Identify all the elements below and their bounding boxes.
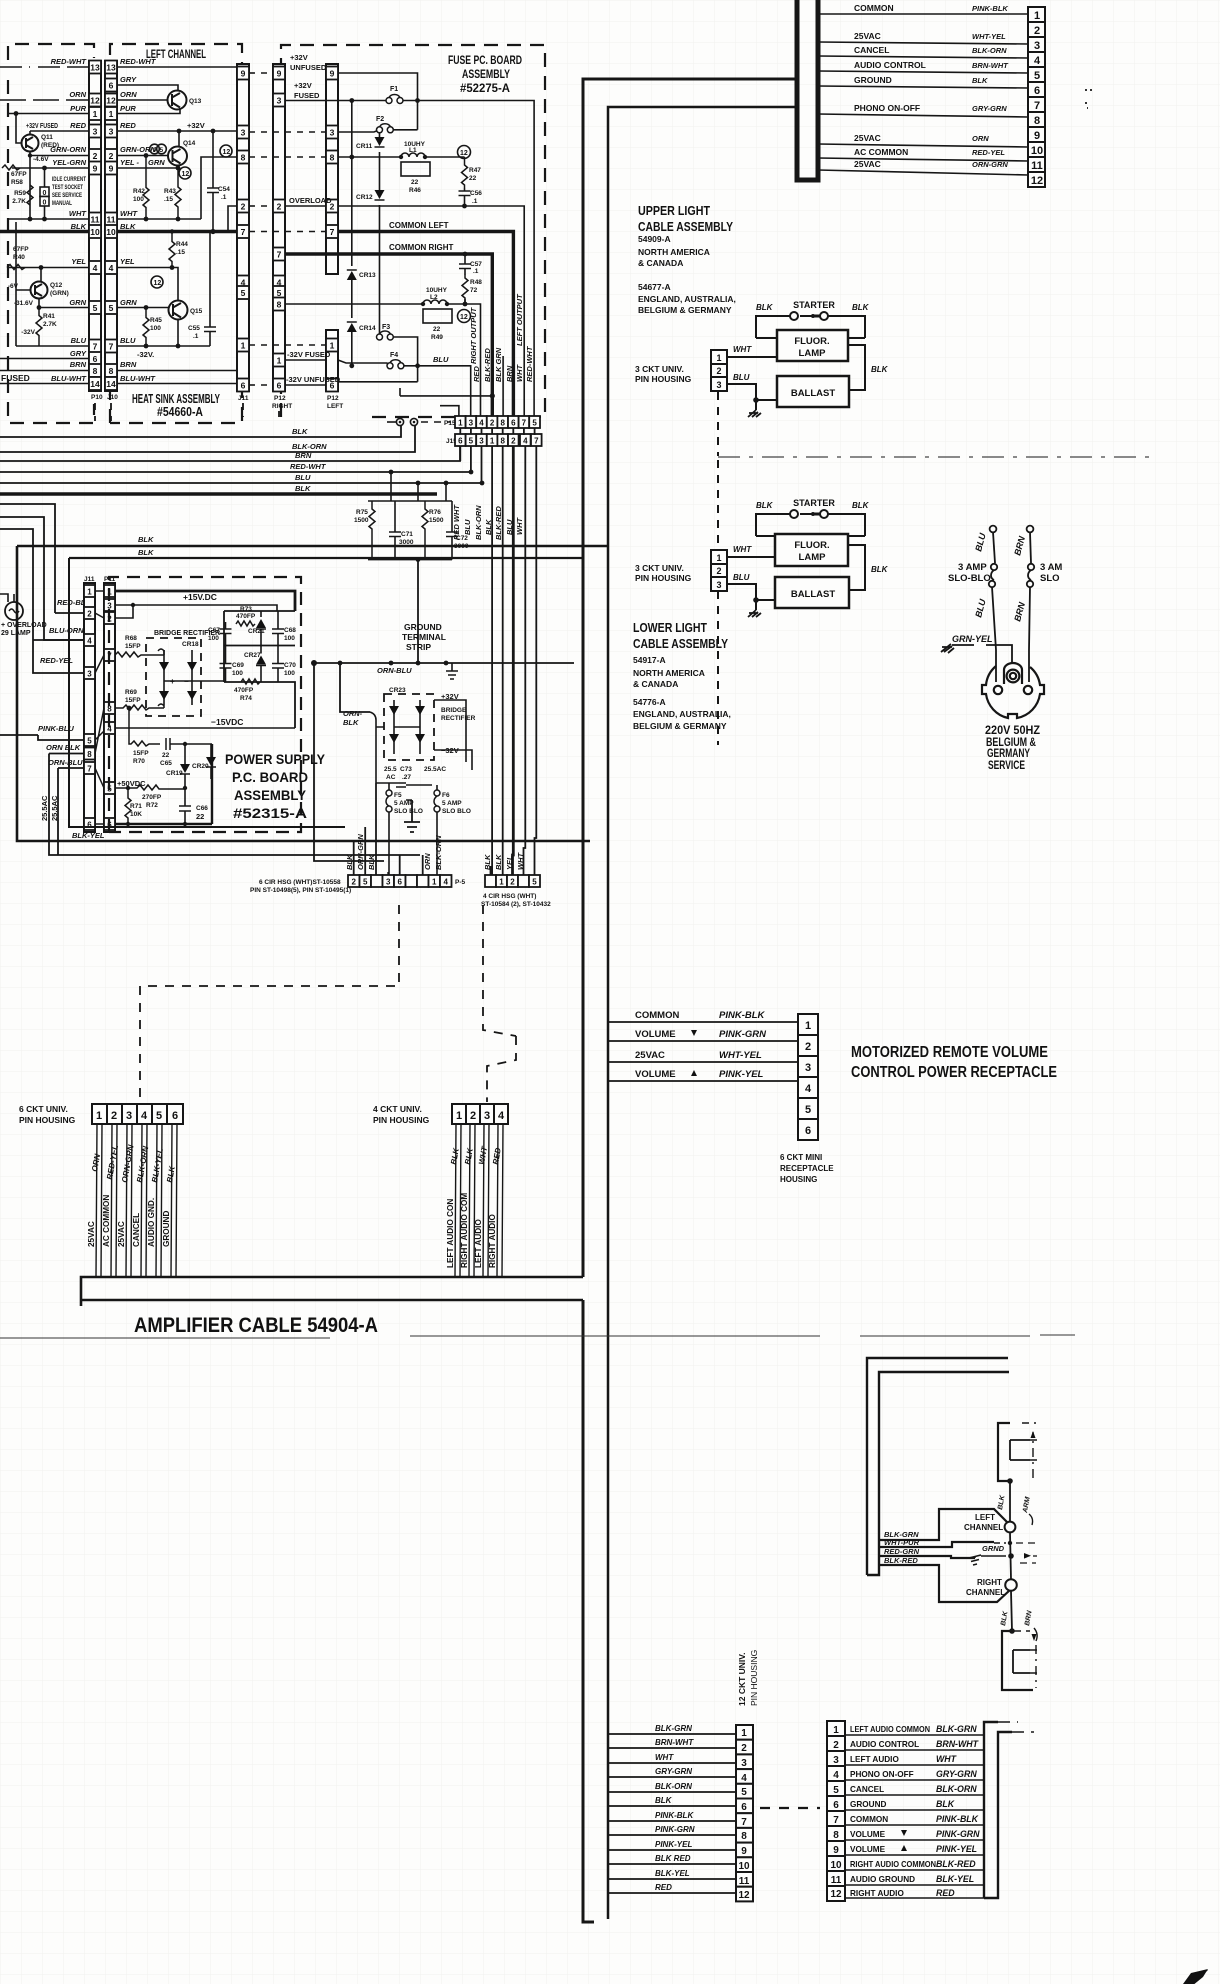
svg-text:5: 5	[532, 878, 537, 887]
wire BLK-GRN	[879, 1509, 1007, 1540]
svg-text:SEE SERVICE: SEE SERVICE	[52, 192, 82, 199]
svg-text:UNFUSED: UNFUSED	[290, 63, 327, 72]
svg-text:5: 5	[805, 1104, 811, 1116]
svg-text:#52275-A: #52275-A	[460, 81, 510, 95]
svg-text:8: 8	[93, 366, 98, 376]
svg-text:CANCEL: CANCEL	[132, 1213, 141, 1247]
svg-text:YEL -: YEL -	[120, 158, 140, 167]
dashed enclosure power supply	[109, 577, 301, 832]
wire WHT-PUR	[879, 1542, 994, 1547]
resistor R74 470FP	[241, 679, 260, 684]
svg-text:PHONO ON-OFF: PHONO ON-OFF	[854, 103, 920, 113]
test point 9/5 circles	[150, 144, 167, 154]
svg-text:R71: R71	[130, 803, 142, 810]
svg-text:AUDIO GROUND: AUDIO GROUND	[850, 1875, 915, 1884]
svg-text:CABLE ASSEMBLY: CABLE ASSEMBLY	[638, 219, 733, 234]
wire RED-GRN	[879, 1556, 975, 1558]
fuse F5	[386, 790, 392, 796]
svg-text:CHANNEL: CHANNEL	[964, 1523, 1003, 1532]
svg-text:7: 7	[330, 227, 335, 237]
svg-text:25VAC: 25VAC	[87, 1221, 96, 1247]
test point 12 heatsink	[220, 145, 232, 157]
svg-text:10UHY: 10UHY	[426, 287, 448, 294]
svg-text:ORN: ORN	[423, 853, 432, 870]
svg-text:-6V: -6V	[8, 283, 19, 290]
svg-text:4: 4	[523, 437, 528, 446]
svg-text:15FP: 15FP	[125, 697, 141, 704]
svg-text:4: 4	[479, 419, 484, 428]
svg-text:(GRN): (GRN)	[50, 290, 69, 297]
svg-text:LAMP: LAMP	[799, 348, 827, 359]
long dash-dot divider	[718, 456, 1155, 458]
svg-text:BLK-ORN: BLK-ORN	[972, 46, 1007, 55]
svg-text:BLK: BLK	[852, 303, 870, 312]
svg-text:1: 1	[716, 553, 721, 563]
PINK-BLU wire	[38, 735, 84, 740]
svg-text:4: 4	[1034, 55, 1041, 67]
svg-text:BRN: BRN	[505, 365, 514, 382]
svg-text:6 CKT UNIV.: 6 CKT UNIV.	[19, 1104, 68, 1114]
ground terminal strip	[314, 662, 574, 664]
svg-text:BELGIUM & GERMANY: BELGIUM & GERMANY	[638, 305, 732, 315]
svg-text:2: 2	[716, 566, 721, 576]
svg-text:CR18: CR18	[182, 641, 199, 648]
svg-text:L1: L1	[409, 147, 417, 154]
svg-text:C71: C71	[401, 531, 413, 538]
capacitor C54	[207, 131, 219, 230]
test point 12 fuse b	[458, 310, 471, 323]
svg-text:VOLUME: VOLUME	[850, 1845, 886, 1854]
svg-text:RED: RED	[70, 121, 86, 130]
upper connector bracket	[998, 1423, 1010, 1481]
svg-text:6: 6	[397, 878, 402, 887]
svg-text:5: 5	[741, 1787, 747, 1798]
svg-text:3 AMP: 3 AMP	[958, 562, 987, 573]
svg-text:6: 6	[241, 381, 246, 391]
svg-text:COMMON LEFT: COMMON LEFT	[389, 221, 449, 230]
fluor lamp box (upper)	[777, 330, 848, 361]
svg-text:12: 12	[154, 280, 162, 287]
svg-text:9: 9	[241, 69, 246, 79]
svg-text:2: 2	[109, 151, 114, 161]
svg-text:MANUAL: MANUAL	[52, 200, 72, 207]
svg-text:.1: .1	[221, 194, 227, 201]
svg-text:0: 0	[43, 200, 47, 207]
svg-text:25.5AC: 25.5AC	[424, 766, 446, 773]
svg-text:BRIDGE RECTIFIER: BRIDGE RECTIFIER	[154, 630, 220, 637]
dash-dot arrow upper	[1032, 1432, 1034, 1478]
svg-text:WHT: WHT	[936, 1754, 957, 1764]
svg-text:−15VDC: −15VDC	[211, 717, 243, 727]
svg-text:PINK-GRN: PINK-GRN	[719, 1029, 767, 1040]
vertical output wire labels	[469, 306, 534, 382]
ground symbol on strip	[446, 663, 458, 679]
starter (upper)	[756, 312, 865, 338]
wire YEL-GRN row	[117, 167, 178, 169]
svg-text:3: 3	[330, 128, 335, 138]
svg-text:PIN HOUSING: PIN HOUSING	[749, 1650, 759, 1706]
svg-text:BLK-ORN: BLK-ORN	[936, 1784, 977, 1794]
wire BLU-WHT row	[117, 383, 237, 385]
svg-text:12: 12	[460, 150, 468, 157]
svg-text:F1: F1	[390, 86, 398, 93]
svg-text:7: 7	[741, 1817, 747, 1828]
svg-text:LEFT: LEFT	[975, 1513, 995, 1522]
svg-text:10: 10	[106, 227, 116, 237]
resistor R71	[125, 788, 131, 824]
idle current test socket	[44, 168, 46, 219]
resistor R40 67FP	[7, 265, 25, 270]
svg-text:WHT: WHT	[516, 852, 525, 870]
resistor R75	[369, 501, 375, 557]
phono plug left channel	[1005, 1522, 1016, 1533]
svg-text:12: 12	[738, 1890, 750, 1901]
svg-text:AUDIO CONTROL: AUDIO CONTROL	[854, 60, 926, 70]
svg-text:4: 4	[741, 1773, 747, 1784]
svg-text:F6: F6	[442, 792, 450, 799]
svg-text:BLK: BLK	[484, 519, 493, 535]
svg-text:BRIDGE: BRIDGE	[441, 707, 467, 714]
svg-text:12: 12	[830, 1889, 842, 1900]
svg-text:SLO BLO: SLO BLO	[394, 808, 423, 815]
svg-text:UPPER LIGHT: UPPER LIGHT	[638, 203, 710, 218]
svg-text:7: 7	[1034, 100, 1040, 112]
svg-text:14: 14	[106, 379, 116, 389]
svg-text:.1: .1	[193, 333, 199, 340]
svg-text:9: 9	[109, 164, 114, 174]
svg-text:OVERLOAD: OVERLOAD	[289, 196, 332, 205]
resistor R68 15FP	[115, 652, 164, 657]
svg-text:54677-A: 54677-A	[638, 282, 671, 292]
right side wire labels	[120, 57, 165, 383]
wire BRN lead	[1027, 526, 1035, 682]
svg-text:WHT: WHT	[515, 364, 524, 382]
diode CR19	[184, 744, 186, 788]
svg-text:GRY: GRY	[120, 75, 137, 84]
svg-text:2: 2	[87, 610, 92, 619]
svg-text:PINK-YEL: PINK-YEL	[936, 1844, 977, 1854]
svg-text:PIN HOUSING: PIN HOUSING	[19, 1115, 76, 1125]
diode CR21	[260, 611, 262, 645]
wires (lower light)	[727, 545, 865, 610]
svg-text:-32V.: -32V.	[137, 350, 154, 359]
svg-text:CANCEL: CANCEL	[854, 45, 889, 55]
ground (upper light)	[748, 410, 761, 417]
svg-text:-32V: -32V	[21, 329, 35, 336]
svg-text:12: 12	[460, 314, 468, 321]
svg-text:WHT: WHT	[733, 545, 752, 554]
svg-text:SLO: SLO	[1040, 573, 1060, 584]
svg-text:ORN: ORN	[69, 90, 86, 99]
svg-text:3: 3	[87, 670, 92, 679]
connector J10 housing	[105, 61, 117, 391]
svg-text:GRN: GRN	[120, 298, 137, 307]
svg-text:6: 6	[741, 1802, 747, 1813]
svg-text:8: 8	[833, 1830, 839, 1841]
svg-text:+32V: +32V	[294, 81, 312, 90]
svg-text:7: 7	[87, 765, 92, 774]
J10 pin boxes	[105, 61, 117, 391]
wire J11 pin2 link	[228, 206, 237, 232]
connector 12 ckt univ pin housing (left)	[736, 1725, 753, 1901]
svg-text:1: 1	[109, 109, 114, 119]
svg-text:2: 2	[93, 151, 98, 161]
svg-text:54917-A: 54917-A	[633, 655, 666, 665]
wire -32V unfused	[338, 381, 418, 383]
svg-text:RED-WHT: RED-WHT	[290, 462, 327, 471]
test point 12 circle b	[151, 276, 163, 288]
capacitor C55	[204, 232, 216, 347]
transistor Q12 (GRN)	[31, 282, 48, 299]
svg-text:PIN HOUSING: PIN HOUSING	[635, 374, 692, 384]
svg-text:13: 13	[90, 63, 100, 73]
svg-text:BLK-ORN: BLK-ORN	[655, 1782, 692, 1791]
svg-text:SLO-BLO: SLO-BLO	[948, 573, 991, 584]
svg-text:GRN: GRN	[148, 158, 165, 167]
svg-text:RECTIFIER: RECTIFIER	[441, 715, 476, 722]
diode CR14	[351, 312, 353, 366]
svg-text:BLK-GRN: BLK-GRN	[655, 1724, 692, 1733]
svg-text:COMMON RIGHT: COMMON RIGHT	[389, 243, 454, 252]
svg-text:3: 3	[386, 878, 391, 887]
svg-text:& CANADA: & CANADA	[638, 258, 683, 268]
svg-text:RIGHT: RIGHT	[272, 403, 292, 410]
svg-text:2: 2	[241, 202, 246, 212]
svg-text:YEL: YEL	[71, 257, 86, 266]
svg-text:4: 4	[443, 878, 448, 887]
svg-text:CR11: CR11	[356, 143, 373, 150]
svg-text:BLK: BLK	[343, 718, 359, 727]
svg-text:RED: RED	[472, 366, 481, 382]
svg-text:PINK-GRN: PINK-GRN	[655, 1825, 695, 1834]
wire RED-WHT row to J11	[117, 66, 237, 68]
svg-text:13: 13	[106, 63, 116, 73]
svg-text:1: 1	[716, 353, 721, 363]
svg-text:PINK-BLK: PINK-BLK	[655, 1811, 694, 1820]
svg-text:12: 12	[223, 149, 231, 156]
svg-text:5: 5	[241, 288, 246, 298]
svg-text:FUSE PC. BOARD: FUSE PC. BOARD	[448, 53, 522, 67]
fuse F2	[338, 130, 418, 132]
transistor Q14	[168, 147, 187, 166]
capacitor C56	[459, 188, 471, 206]
svg-text:25.5AC: 25.5AC	[50, 795, 59, 821]
svg-text:6: 6	[805, 1125, 811, 1137]
svg-text:R70: R70	[133, 758, 145, 765]
terminal rings	[396, 418, 403, 425]
resistor R42	[143, 156, 149, 220]
svg-text:GROUND: GROUND	[850, 1800, 886, 1809]
svg-text:PIN HOUSING: PIN HOUSING	[635, 573, 692, 583]
svg-text:+ OVERLOAD: + OVERLOAD	[1, 622, 47, 629]
diode CR27	[260, 646, 262, 682]
svg-text:GROUND: GROUND	[404, 622, 442, 632]
capacitor C70	[272, 646, 284, 683]
connector J13 12-pin housing	[1028, 7, 1045, 187]
svg-text:5: 5	[156, 1110, 162, 1122]
svg-text:RIGHT AUDIO: RIGHT AUDIO	[488, 1214, 497, 1268]
svg-text:BLU: BLU	[295, 473, 311, 482]
ballast box (upper)	[777, 376, 849, 407]
svg-text:6: 6	[87, 821, 92, 830]
bus wire BLU	[0, 482, 482, 484]
svg-text:10: 10	[830, 1860, 842, 1871]
svg-text:FLUOR.: FLUOR.	[794, 336, 829, 347]
svg-text:CR23: CR23	[389, 687, 406, 694]
svg-text:J10: J10	[107, 394, 118, 401]
svg-text:1: 1	[458, 419, 463, 428]
svg-text:1: 1	[499, 878, 504, 887]
svg-text:PUR: PUR	[70, 104, 86, 113]
svg-text:RED-WHT: RED-WHT	[120, 57, 157, 66]
wire YEL row right	[117, 267, 172, 269]
svg-text:RIGHT AUDIO COM: RIGHT AUDIO COM	[460, 1193, 469, 1268]
bus wire BLK-ORN	[0, 426, 415, 452]
vertical wire labels	[452, 504, 524, 540]
svg-text:MOTORIZED REMOTE VOLUME: MOTORIZED REMOTE VOLUME	[851, 1044, 1048, 1061]
svg-text:R46: R46	[409, 187, 421, 194]
svg-text:YEL-GRN: YEL-GRN	[52, 158, 86, 167]
svg-text:POWER SUPPLY: POWER SUPPLY	[225, 751, 326, 767]
svg-text:8: 8	[741, 1831, 747, 1842]
svg-text:3 CKT UNIV.: 3 CKT UNIV.	[635, 364, 684, 374]
wire BLU row	[117, 345, 210, 347]
svg-text:6: 6	[1034, 85, 1040, 97]
svg-text:PINK-YEL: PINK-YEL	[719, 1069, 764, 1080]
svg-text:12: 12	[90, 96, 100, 106]
svg-text:270FP: 270FP	[142, 794, 162, 801]
svg-text:ORN: ORN	[120, 90, 137, 99]
svg-text:5: 5	[87, 737, 92, 746]
svg-text:ORN BLK: ORN BLK	[46, 743, 81, 752]
dashed connector line (lower)	[717, 460, 719, 745]
svg-text:12: 12	[106, 96, 116, 106]
fuse F1	[285, 101, 534, 417]
svg-text:BLK-ORN: BLK-ORN	[292, 442, 327, 451]
svg-text:CONTROL POWER RECEPTACLE: CONTROL POWER RECEPTACLE	[851, 1064, 1057, 1081]
svg-text:BLK: BLK	[871, 565, 889, 574]
svg-text:3: 3	[93, 127, 98, 137]
svg-text:PINK-GRN: PINK-GRN	[936, 1829, 980, 1839]
wires Q13	[117, 85, 180, 114]
svg-text:22: 22	[162, 752, 170, 759]
svg-text:7: 7	[93, 342, 98, 352]
svg-text:3: 3	[126, 1110, 132, 1122]
svg-text:8: 8	[277, 300, 282, 310]
wire BLU lead	[989, 526, 997, 682]
svg-text:6: 6	[277, 381, 282, 391]
svg-text:AC COMMON: AC COMMON	[854, 147, 908, 157]
svg-text:TEST SOCKET: TEST SOCKET	[52, 184, 83, 191]
svg-text:4: 4	[87, 637, 92, 646]
svg-text:R72: R72	[146, 802, 158, 809]
svg-text:22: 22	[411, 179, 419, 186]
bridge diodes	[164, 650, 192, 705]
svg-text:WHT: WHT	[120, 209, 138, 218]
svg-text:ORN-GRN: ORN-GRN	[356, 834, 365, 870]
svg-text:3: 3	[484, 1110, 490, 1122]
svg-text:BLU: BLU	[120, 336, 136, 345]
svg-text:BLU: BLU	[733, 573, 750, 582]
wire WHT row	[117, 218, 201, 220]
svg-text:25.5: 25.5	[384, 766, 397, 773]
svg-text:R76: R76	[429, 509, 441, 516]
svg-text:RED: RED	[936, 1888, 955, 1898]
svg-text:R69: R69	[125, 689, 137, 696]
svg-text:VOLUME: VOLUME	[635, 1069, 676, 1080]
svg-text:BLU-ORN: BLU-ORN	[49, 626, 84, 635]
svg-text:1: 1	[96, 1110, 102, 1122]
svg-text:AC COMMON: AC COMMON	[102, 1195, 111, 1247]
svg-text:3: 3	[469, 419, 474, 428]
svg-text:9: 9	[153, 147, 157, 154]
bus wire RED-WHT	[0, 471, 471, 473]
svg-text:BRN-WHT: BRN-WHT	[972, 61, 1009, 70]
svg-text:Q15: Q15	[190, 308, 203, 315]
svg-text:PINK-BLK: PINK-BLK	[936, 1814, 979, 1824]
svg-text:ORN-: ORN-	[343, 709, 363, 718]
svg-text:+32V FUSED: +32V FUSED	[26, 121, 58, 130]
svg-text:BLK-RED: BLK-RED	[884, 1556, 918, 1565]
svg-text:GRY-GRN: GRY-GRN	[972, 104, 1007, 113]
svg-text:ASSEMBLY: ASSEMBLY	[234, 787, 307, 803]
svg-text:BLK: BLK	[138, 548, 154, 557]
svg-text:4 CIR HSG (WHT): 4 CIR HSG (WHT)	[483, 893, 536, 900]
svg-text:RED-GRN: RED-GRN	[884, 1547, 920, 1556]
svg-text:R59: R59	[14, 190, 26, 197]
bridge rectifier CR23 dashed box	[384, 694, 434, 760]
svg-text:220V 50HZ: 220V 50HZ	[985, 725, 1040, 737]
svg-text:IDLE CURRENT: IDLE CURRENT	[52, 176, 86, 183]
svg-text:1: 1	[741, 1728, 747, 1739]
svg-text:6 CIR HSG (WHT)ST-10558: 6 CIR HSG (WHT)ST-10558	[259, 879, 341, 886]
svg-text:BLK: BLK	[345, 854, 354, 870]
svg-text:25VAC: 25VAC	[854, 159, 881, 169]
svg-text:2: 2	[470, 1110, 476, 1122]
svg-text:RECEPTACLE: RECEPTACLE	[780, 1164, 834, 1173]
svg-text:R74: R74	[240, 695, 252, 702]
svg-text:GRN-YEL: GRN-YEL	[952, 634, 993, 644]
svg-text:8: 8	[241, 153, 246, 163]
svg-text:25VAC: 25VAC	[854, 133, 881, 143]
svg-text:CR14: CR14	[359, 325, 376, 332]
svg-text:7: 7	[534, 437, 539, 446]
svg-text:4: 4	[93, 263, 98, 273]
svg-text:SLO BLO: SLO BLO	[442, 808, 471, 815]
svg-text:9: 9	[741, 1846, 747, 1857]
inductor L2 with R49	[285, 303, 423, 305]
svg-text:R75: R75	[356, 509, 368, 516]
svg-text:ORN-GRN: ORN-GRN	[972, 160, 1008, 169]
svg-text:3: 3	[805, 1062, 811, 1074]
svg-text:0: 0	[43, 190, 47, 197]
svg-text:PUR: PUR	[120, 104, 136, 113]
bus wire BLK	[0, 426, 401, 437]
svg-text:BALLAST: BALLAST	[791, 589, 836, 600]
svg-text:4 CKT UNIV.: 4 CKT UNIV.	[373, 1104, 422, 1114]
svg-text:5: 5	[160, 147, 164, 154]
svg-text:BLK-RED: BLK-RED	[494, 506, 503, 540]
wires (upper light)	[727, 345, 865, 410]
svg-text:C55: C55	[188, 325, 200, 332]
lower connector bracket	[1002, 1631, 1033, 1690]
svg-text:F2: F2	[376, 116, 384, 123]
dashed pin links J11-P12	[249, 73, 326, 385]
row separator wires	[845, 1735, 984, 1898]
svg-text:67FP: 67FP	[11, 171, 27, 178]
svg-text:WHT: WHT	[69, 209, 87, 218]
diode CR13	[351, 101, 353, 313]
